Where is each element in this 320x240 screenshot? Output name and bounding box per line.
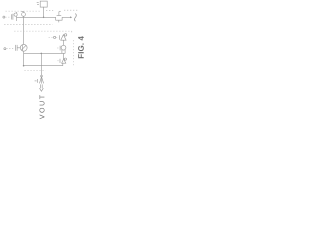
wire vertical from bus down to Q3	[23, 17, 25, 44]
wire top bus left	[17, 16, 56, 18]
node junction dot C	[41, 53, 43, 55]
wire top bus right	[62, 16, 70, 18]
wire vertical below Q3	[23, 51, 25, 65]
transistor Q2 (small, on top bus)	[22, 11, 26, 17]
node N3 (gate of Q4)	[54, 36, 56, 38]
transistor Q4 (top of right stack)	[60, 34, 67, 46]
transistor Q5 (middle of right stack)	[60, 45, 66, 59]
squiggle break symbol right end	[75, 14, 77, 22]
wire dashed gate lead of Q5	[57, 47, 59, 49]
node junction dot B	[23, 65, 25, 67]
transistor M1 (pass MOSFET in top bus)	[56, 11, 62, 22]
node junction dot A	[43, 17, 45, 19]
terminal mark left of box U1	[37, 3, 39, 5]
dashed control line row 4	[24, 70, 45, 72]
output arrow below Q6	[41, 84, 43, 88]
box U1 (top supply block)	[40, 1, 47, 7]
wire dashed gate lead of Q3	[6, 48, 14, 50]
dashed control line top far right	[64, 9, 78, 11]
wire dashed gate lead of Q4	[49, 36, 59, 38]
dashed control line row 1 right	[46, 10, 53, 12]
label FIG. 4 (rotated figure caption)	[78, 36, 84, 58]
node N2 (gate input of Q3)	[4, 48, 6, 50]
wire dashed gate lead of Q1	[5, 16, 10, 18]
wire horizontal lower (source rail)	[24, 63, 63, 65]
dashed control line row 1	[6, 10, 42, 12]
wire horizontal mid (drain rail)	[24, 52, 66, 54]
dashed control line row 2	[4, 24, 52, 26]
wire vertical center down to Q6	[40, 53, 42, 75]
transistor Q7 (bottom of right stack)	[60, 58, 67, 63]
transistor Q3 (circled, mid left)	[15, 44, 27, 51]
node N1 (gate input of Q1)	[3, 16, 5, 18]
transistor Q1 (top left)	[11, 12, 17, 21]
transistor Q6 (bottom center, arrow device)	[35, 75, 44, 83]
arrowhead output top right	[70, 16, 72, 18]
wire from box U1 down to top bus	[43, 7, 45, 17]
wire dashed gate lead of Q7	[57, 60, 59, 62]
dashed control line row 3	[14, 31, 72, 33]
label VOUT (rotated output label)	[40, 95, 45, 119]
dashed vertical control line right	[73, 40, 75, 66]
